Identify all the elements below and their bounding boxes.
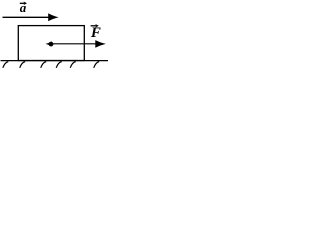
svg-text:F: F <box>90 25 101 41</box>
svg-text:a: a <box>20 0 27 15</box>
